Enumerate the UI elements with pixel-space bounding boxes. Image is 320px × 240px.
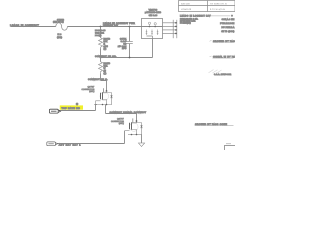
svg-text:LEADS IN LCONGIT 18V: LEADS IN LCONGIT 18V	[180, 15, 211, 18]
wire main right	[67, 26, 141, 28]
wire ground bus	[101, 57, 153, 59]
svg-text:CONNECT SIGNAL CONNECT: CONNECT SIGNAL CONNECT	[110, 111, 147, 114]
net label SIGNAL IN BY	[210, 56, 239, 59]
svg-text:(T): (T)	[104, 72, 107, 75]
note block under wire	[95, 29, 105, 37]
net label GROUND BY PASS	[210, 40, 237, 43]
svg-text:I7.8: I7.8	[58, 33, 62, 36]
inductor L3958	[53, 18, 67, 39]
svg-text:JE TB (SOS): JE TB (SOS)	[221, 30, 234, 33]
svg-text:PTDLM.LDSM: PTDLM.LDSM	[220, 22, 235, 25]
wire regulator ground pin	[152, 39, 154, 58]
wire connect signal	[106, 113, 137, 115]
svg-text:(T): (T)	[104, 47, 107, 50]
wire ant net	[57, 143, 125, 145]
svg-text:(NM-I0I-B): (NM-I0I-B)	[53, 21, 64, 24]
svg-text:μA78M05-REG: μA78M05-REG	[145, 11, 162, 14]
svg-text:DU PHILM.A: DU PHILM.A	[222, 26, 235, 29]
resistor R3958	[99, 27, 111, 58]
wire yellow net	[59, 110, 96, 112]
svg-text:AGE100: AGE100	[181, 2, 190, 5]
faint strikes	[209, 70, 222, 74]
capacitor C3701	[118, 27, 133, 58]
svg-text:(35C): (35C)	[89, 90, 94, 93]
wire Q2 gate down	[124, 131, 126, 144]
regulator internals	[142, 22, 163, 38]
revision table	[179, 1, 236, 12]
svg-text:S.A.A. NSW-0001: S.A.A. NSW-0001	[214, 73, 231, 76]
wire yellow net vertical	[95, 105, 97, 111]
node junction E	[106, 90, 108, 92]
connector bubble 2	[47, 142, 58, 146]
connector bubble 1	[49, 109, 60, 113]
highlight TOP RATE BB	[60, 105, 83, 110]
ground symbol	[138, 143, 144, 147]
svg-text:PO4M3(0/0): PO4M3(0/0)	[180, 22, 191, 25]
connector J1 pins	[163, 20, 178, 38]
svg-text:SON A.3 EM: SON A.3 EM	[222, 18, 235, 21]
wire Q2 to ground	[141, 135, 143, 144]
node junction A	[100, 26, 102, 28]
regulator U1 box	[142, 19, 163, 39]
svg-text:NPO: NPO	[122, 47, 127, 50]
svg-text:S/N 8.98: S/N 8.98	[149, 14, 158, 17]
wire to Q1 drain	[101, 81, 107, 92]
title block corner	[225, 144, 237, 152]
svg-text:VR3700: VR3700	[149, 8, 158, 11]
transistor Q9707 (top)	[81, 86, 112, 106]
transistor Q9707 (bottom)	[111, 114, 143, 136]
svg-text:LCONGIT 18V: LCONGIT 18V	[103, 24, 119, 27]
node junction B	[129, 26, 131, 28]
resistor R3959	[99, 58, 111, 81]
net label LEADS IN CONNECT PWR	[103, 22, 135, 27]
wire main left	[11, 26, 56, 28]
node junction D	[129, 57, 131, 59]
wire Q1 source down	[105, 105, 107, 114]
note block right	[220, 18, 235, 33]
svg-text:(MΩ): (MΩ)	[57, 36, 62, 39]
node LEADS IN label	[10, 24, 39, 27]
net label right top	[180, 14, 233, 24]
svg-text:ANT EXT EXT 1: ANT EXT EXT 1	[59, 143, 82, 146]
regulator VR3700 labels	[145, 8, 162, 17]
svg-text:(35C): (35C)	[119, 122, 124, 125]
svg-text:LOAD100: LOAD100	[181, 8, 192, 11]
svg-text:TOP RATE BB: TOP RATE BB	[62, 107, 81, 110]
svg-text:TO WIRE ER. B: TO WIRE ER. B	[210, 2, 227, 5]
node junction C	[100, 57, 102, 59]
svg-text:0.T/I W x(0 rB: 0.T/I W x(0 rB	[210, 8, 225, 11]
net label bottom right	[195, 123, 234, 126]
